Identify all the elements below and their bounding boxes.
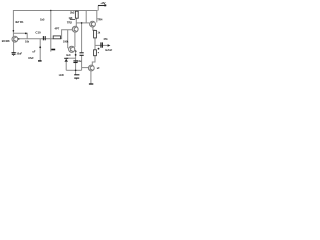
svg-text:BC108: BC108 — [2, 39, 10, 43]
wire T1 emitter down — [13, 42, 15, 53]
wire output node y45.4 — [95, 44, 108, 46]
capacitor electrolytic plate x51 — [51, 49, 55, 51]
wire supply terminal drop — [97, 6, 99, 11]
wire feedback chain lower — [81, 55, 83, 70]
wire stub under C4 — [13, 54, 15, 56]
node dot A — [13, 30, 15, 32]
svg-text:47k: 47k — [103, 37, 108, 41]
svg-text:C10: C10 — [35, 30, 41, 34]
ground under Q4 — [89, 83, 93, 85]
wire diode top link y58.2 — [66, 57, 75, 59]
svg-text:10k: 10k — [25, 39, 30, 43]
wire T5 emitter to R4 — [93, 27, 95, 31]
wire left branch y33 — [13, 33, 27, 39]
resistor R3 horizontal — [53, 36, 60, 39]
svg-text:4uX: 4uX — [66, 53, 71, 57]
node dot F — [81, 22, 83, 24]
svg-text:4u7uF: 4u7uF — [105, 48, 113, 52]
svg-text:4P7: 4P7 — [55, 27, 60, 31]
svg-text:1k5: 1k5 — [40, 18, 45, 22]
wire T4 emitter down — [90, 71, 92, 84]
node junction H plus mark — [98, 48, 100, 50]
svg-text:47uF: 47uF — [28, 56, 34, 60]
svg-text:TR4: TR4 — [97, 17, 103, 21]
wire rail drop x86.5 — [85, 11, 87, 23]
capacitor C2 output plates — [100, 42, 102, 47]
capacitor C3 ground bar — [38, 60, 42, 62]
node dot C — [39, 46, 41, 48]
output arrowhead — [108, 44, 111, 47]
wire diode anode drop — [65, 62, 67, 71]
transistor Q4 output — [88, 65, 94, 71]
wire T2 collector — [75, 18, 77, 26]
resistor R2 vertical — [75, 11, 78, 18]
svg-text:100k: 100k — [63, 39, 69, 43]
wire W1 base run — [18, 38, 53, 40]
wire collector node to T5 base y22.9 — [76, 22, 89, 24]
svg-text:uF: uF — [32, 50, 35, 54]
wire T2 base vertical feed x67.7 — [67, 30, 69, 49]
svg-text:2k2: 2k2 — [70, 11, 75, 15]
wire diode bottom run y70.3 — [66, 69, 81, 71]
svg-text:10uF: 10uF — [16, 52, 22, 56]
node junction H2 faint — [98, 52, 99, 53]
capacitor C4 plates under Q1 — [12, 52, 16, 54]
transistor Q2 — [72, 26, 78, 32]
capacitor on Q3 emitter chain plates — [73, 60, 77, 62]
wire R2 top to rail — [76, 10, 78, 13]
svg-text:LED: LED — [59, 73, 64, 77]
transistor Q5 top right — [90, 21, 96, 27]
wire C1 to R3 output — [61, 30, 73, 39]
wire R4 bottom to R5 top — [94, 38, 96, 50]
capacitor feedback plates — [80, 52, 84, 54]
wire R5 bottom to T4 collector — [92, 56, 95, 65]
capacitor C1 plates — [42, 36, 44, 40]
node dot D — [75, 54, 77, 56]
wire T3 emitter chain x75.6 — [75, 52, 77, 75]
node dot B — [25, 33, 27, 35]
svg-text:+9V: +9V — [100, 1, 105, 5]
wire vertical x40.7 to ground cap — [39, 39, 41, 61]
node dot E — [75, 70, 77, 72]
wire T5 collector from rail — [96, 11, 98, 23]
resistor R5 vertical — [94, 50, 97, 56]
wire vertical from rail x51 — [50, 11, 52, 52]
transistor Q3 — [69, 46, 75, 52]
wire T4 base — [82, 67, 89, 69]
diode D1 — [65, 59, 68, 62]
supply terminal bar — [98, 5, 106, 7]
transistor Q1 emitter arrow — [18, 38, 20, 40]
svg-text:4k7 R1: 4k7 R1 — [15, 20, 24, 24]
wire T2 emitter to T3 collector — [74, 32, 76, 47]
svg-text:C4u: C4u — [77, 59, 82, 63]
transistor Q3 emitter arrow — [75, 50, 77, 53]
resistor R4 vertical — [94, 30, 97, 38]
capacitor lower plates — [74, 74, 79, 76]
wire top supply rail — [13, 11, 97, 37]
node junction G — [50, 10, 51, 11]
wire feedback chain x81.6 — [81, 23, 83, 52]
svg-text:TR2: TR2 — [67, 21, 73, 25]
transistor Q1 — [12, 36, 18, 42]
